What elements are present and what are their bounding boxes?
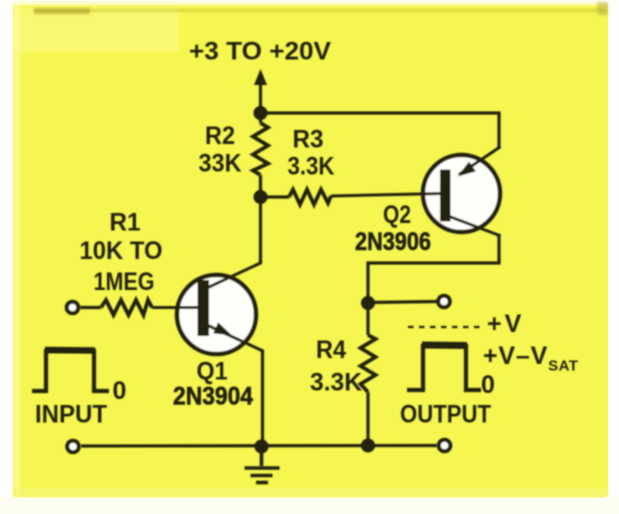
svg-text:2N3906: 2N3906 bbox=[355, 228, 431, 256]
wire: input terminal to R1 bbox=[80, 306, 101, 309]
svg-text:+V: +V bbox=[487, 310, 524, 338]
svg-text:3.3K: 3.3K bbox=[310, 369, 362, 397]
input waveform pulse bbox=[32, 351, 109, 391]
wire: supply stem bbox=[259, 82, 262, 113]
wire: node C to output terminal bbox=[368, 302, 438, 303]
svg-text:INPUT: INPUT bbox=[35, 401, 107, 429]
Q1 emitter arrowhead bbox=[213, 322, 232, 335]
Q2 base bar bbox=[440, 170, 451, 222]
wire: R4 bottom stem bbox=[366, 392, 369, 446]
power arrow for +3 TO +20V supply bbox=[254, 69, 267, 85]
svg-text:R2: R2 bbox=[205, 122, 235, 150]
wire: R1 to Q1 base bbox=[152, 306, 198, 309]
wire: Q2 collector down and across to R4 top bbox=[368, 234, 499, 335]
wire: Q1 emitter diagonal bbox=[208, 326, 263, 352]
svg-text:0: 0 bbox=[481, 371, 495, 399]
Q2 emitter arrowhead (points into base: PNP) bbox=[458, 162, 476, 177]
output ground terminal open circle bbox=[439, 440, 451, 452]
input terminal open circle bbox=[67, 302, 79, 314]
svg-text:0: 0 bbox=[113, 377, 127, 405]
output terminal open circle bbox=[438, 296, 450, 308]
node A junction dot (supply rail) bbox=[254, 106, 268, 120]
svg-text:+3 TO +20V: +3 TO +20V bbox=[189, 38, 331, 66]
wire: Q1 collector riser bbox=[259, 197, 262, 263]
svg-text:R1: R1 bbox=[110, 209, 141, 237]
wire: Q1 emitter drop to ground rail bbox=[261, 350, 264, 446]
node B junction dot (Q1 collector / R2 / R3) bbox=[254, 190, 268, 204]
wire: Q2 collector diagonal bbox=[450, 217, 500, 236]
input ground terminal open circle bbox=[67, 441, 79, 453]
wire: R2 top stem bbox=[259, 113, 262, 123]
svg-text:33K: 33K bbox=[199, 150, 242, 178]
transistor Q2 2N3906 body bbox=[423, 155, 500, 232]
svg-text:Q2: Q2 bbox=[383, 201, 411, 229]
output waveform pulse bbox=[407, 346, 481, 390]
svg-text:10K TO: 10K TO bbox=[80, 237, 163, 265]
wire: R2 bottom stem bbox=[259, 175, 262, 197]
wire: ground rail bbox=[81, 444, 437, 448]
wire: top rail from node A to Q2 emitter corner bbox=[261, 113, 500, 148]
wire: R3 to Q2 base bbox=[331, 194, 442, 197]
svg-text:2N3904: 2N3904 bbox=[173, 383, 253, 411]
node C junction dot (Q2 collector / R4 / output) bbox=[361, 296, 375, 310]
transistor Q1 2N3904 body bbox=[177, 275, 256, 354]
svg-text:Q1: Q1 bbox=[197, 358, 228, 386]
svg-text:OUTPUT: OUTPUT bbox=[400, 401, 491, 429]
svg-text:R4: R4 bbox=[316, 336, 346, 364]
wire: Q2 emitter diagonal bbox=[459, 147, 500, 175]
node E junction dot (Q1 emitter on ground rail) bbox=[255, 440, 269, 454]
Q1 base bar bbox=[198, 280, 210, 336]
node D junction dot (R4 bottom on ground rail) bbox=[361, 439, 375, 453]
svg-text:R3: R3 bbox=[293, 126, 324, 154]
resistor R2 33K zigzag bbox=[253, 123, 268, 175]
resistor R3 3.3K zigzag bbox=[289, 190, 331, 205]
ground symbol bbox=[245, 448, 280, 483]
resistor R1 zigzag bbox=[101, 300, 152, 315]
resistor R4 3.3K zigzag bbox=[361, 335, 376, 392]
wire: Q1 collector diagonal bbox=[208, 263, 262, 288]
svg-text:3.3K: 3.3K bbox=[288, 153, 335, 181]
svg-text:1MEG: 1MEG bbox=[94, 268, 155, 296]
wire: node B to R3 bbox=[261, 195, 290, 198]
dashed +V level line bbox=[408, 326, 482, 328]
